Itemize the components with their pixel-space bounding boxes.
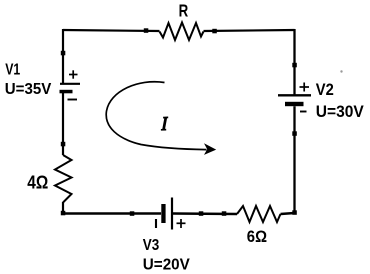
node dot bottom-right corner	[292, 210, 297, 215]
current arrow I (arc)	[106, 82, 206, 150]
svg-text:4Ω: 4Ω	[27, 173, 48, 193]
svg-text:R: R	[179, 1, 189, 21]
wire bottom-right segment	[281, 213, 295, 214]
wire right lower	[293, 106, 295, 213]
wire top-left segment	[63, 30, 160, 31]
svg-text:6Ω: 6Ω	[247, 228, 267, 246]
label I	[161, 117, 168, 129]
plus sign V2	[300, 83, 310, 92]
wire right upper	[293, 29, 295, 95]
wire left upper	[62, 29, 64, 83]
node dot right of R	[212, 29, 217, 34]
svg-text:V3: V3	[143, 237, 160, 254]
resistor 6 ohm	[237, 206, 281, 222]
wire bottom-left segment	[63, 212, 161, 214]
node dot left wire upper	[61, 51, 66, 56]
node dot right wire below V2	[292, 131, 297, 136]
wire left middle	[62, 93, 64, 155]
resistor 4 ohm	[55, 155, 72, 203]
minus sign V3 (vertical tick)	[155, 219, 157, 228]
svg-text:U=30V: U=30V	[316, 103, 364, 121]
wire top-right segment	[204, 30, 295, 31]
node dot bottom-left corner	[61, 211, 66, 216]
battery V3	[161, 198, 172, 230]
wire bottom-middle segment	[173, 212, 237, 215]
svg-text:U=20V: U=20V	[143, 256, 190, 273]
current arrowhead	[204, 143, 216, 155]
svg-text:U=35V: U=35V	[5, 81, 52, 98]
resistor R	[160, 23, 204, 41]
svg-text:V2: V2	[316, 81, 334, 99]
minus sign V2	[300, 111, 307, 113]
scan speck	[340, 70, 342, 72]
wire left lower	[62, 202, 64, 214]
node dot bottom wire left	[130, 211, 135, 216]
battery V1	[60, 84, 81, 94]
battery V2	[278, 95, 311, 106]
minus sign V1	[68, 99, 78, 101]
plus sign V3	[177, 219, 186, 228]
node dot bottom wire mid1	[199, 211, 204, 216]
node dot right wire upper	[292, 63, 297, 68]
plus sign V1	[69, 70, 78, 78]
node dot left of R	[144, 28, 149, 33]
node dot bottom wire mid2	[222, 211, 227, 216]
svg-text:V1: V1	[5, 61, 20, 78]
node dot left wire above 4 ohm	[61, 142, 66, 147]
